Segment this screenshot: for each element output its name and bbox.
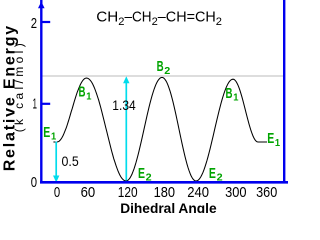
svg-text:1: 1 [51, 131, 56, 143]
svg-text:2: 2 [31, 15, 37, 32]
svg-text:–CH: –CH [125, 9, 152, 26]
svg-text:E: E [43, 124, 50, 141]
svg-text:B: B [226, 85, 233, 102]
svg-text:1: 1 [233, 92, 238, 104]
svg-text:E: E [267, 130, 274, 147]
svg-text:–CH=CH: –CH=CH [158, 9, 216, 26]
svg-text:1: 1 [86, 91, 91, 103]
svg-text:1: 1 [33, 96, 38, 113]
svg-text:2: 2 [164, 65, 170, 77]
svg-text:0: 0 [54, 184, 60, 201]
svg-text:B: B [79, 84, 86, 101]
svg-text:E: E [138, 165, 145, 182]
svg-text:CH: CH [96, 9, 118, 26]
svg-text:360: 360 [256, 184, 277, 201]
svg-text:2: 2 [216, 16, 222, 28]
svg-text:B: B [157, 58, 164, 75]
svg-text:300: 300 [225, 184, 246, 201]
svg-text:1.34: 1.34 [112, 97, 136, 113]
svg-text:E: E [209, 165, 216, 182]
svg-text:60: 60 [81, 184, 96, 201]
svg-text:240: 240 [187, 184, 209, 201]
svg-text:0.5: 0.5 [62, 153, 79, 169]
svg-text:180: 180 [154, 184, 175, 201]
svg-text:120: 120 [118, 184, 138, 201]
svg-text:1: 1 [275, 137, 280, 149]
svg-text:Dihedral Angle: Dihedral Angle [120, 200, 217, 213]
svg-text:0: 0 [31, 174, 37, 191]
svg-text:2: 2 [217, 172, 223, 184]
svg-text:2: 2 [146, 172, 152, 184]
